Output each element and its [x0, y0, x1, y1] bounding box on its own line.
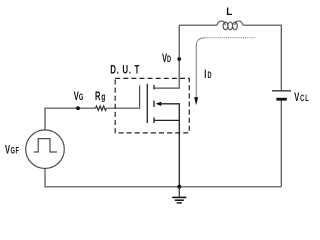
- svg-text:VCL: VCL: [294, 91, 309, 104]
- svg-text:VG: VG: [74, 90, 84, 103]
- svg-text:Rg: Rg: [95, 90, 106, 103]
- svg-text:ID: ID: [204, 68, 212, 81]
- svg-text:VGF: VGF: [5, 144, 19, 157]
- svg-text:L: L: [226, 7, 233, 19]
- svg-text:D. U. T: D. U. T: [110, 64, 140, 77]
- svg-text:VD: VD: [162, 52, 172, 65]
